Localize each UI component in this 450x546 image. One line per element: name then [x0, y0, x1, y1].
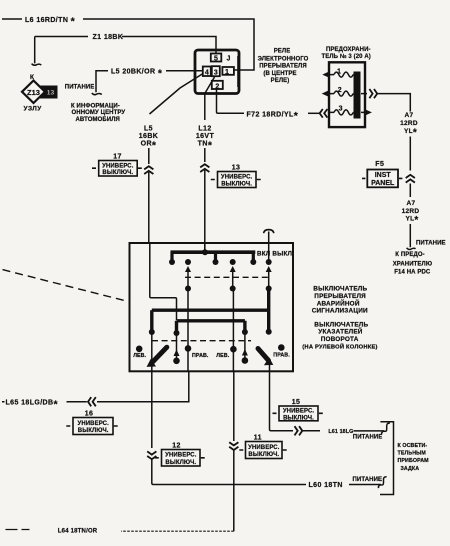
svg-text:ВЫКЛЮЧ.: ВЫКЛЮЧ.	[165, 460, 196, 466]
svg-text:12RD: 12RD	[402, 208, 420, 215]
svg-text:ВЫКЛЮЧАТЕЛЬ: ВЫКЛЮЧАТЕЛЬ	[313, 286, 367, 293]
svg-text:A7: A7	[405, 112, 414, 119]
svg-text:ПОВОРОТА: ПОВОРОТА	[321, 336, 359, 343]
svg-text:К ИНФОРМАЦИ-: К ИНФОРМАЦИ-	[71, 104, 120, 110]
svg-text:СИГНАЛИЗАЦИИ: СИГНАЛИЗАЦИИ	[312, 307, 368, 314]
svg-text:К ПРЕДО-: К ПРЕДО-	[395, 252, 424, 258]
svg-text:13: 13	[47, 90, 55, 97]
svg-text:L5: L5	[144, 126, 153, 133]
svg-text:5: 5	[214, 56, 218, 63]
svg-text:ОННОМУ ЦЕНТРУ: ОННОМУ ЦЕНТРУ	[72, 110, 126, 116]
svg-text:АВТОМОБИЛЯ: АВТОМОБИЛЯ	[76, 117, 120, 123]
svg-text:ПРАВ.: ПРАВ.	[273, 353, 290, 359]
svg-text:ВЫКЛЮЧАТЕЛЬ: ВЫКЛЮЧАТЕЛЬ	[314, 322, 368, 329]
svg-text:К ОСВЕТИ-: К ОСВЕТИ-	[398, 443, 428, 449]
svg-text:ПРЕРЫВАТЕЛЯ: ПРЕРЫВАТЕЛЯ	[314, 293, 366, 300]
svg-text:УНИВЕРС.: УНИВЕРС.	[165, 453, 197, 459]
svg-text:АВАРИЙНОЙ: АВАРИЙНОЙ	[317, 298, 360, 307]
svg-text:(В ЦЕНТРЕ: (В ЦЕНТРЕ	[263, 71, 296, 77]
svg-text:РЕЛЕ: РЕЛЕ	[274, 49, 291, 55]
svg-text:УЗЛУ: УЗЛУ	[24, 106, 43, 113]
svg-text:ЭЛЕКТРОННОГО: ЭЛЕКТРОННОГО	[258, 57, 309, 63]
svg-text:A7: A7	[407, 200, 416, 207]
svg-text:ВЫКЛЮЧ.: ВЫКЛЮЧ.	[221, 181, 252, 187]
svg-text:ТЕЛЬ № 3 (20 А): ТЕЛЬ № 3 (20 А)	[322, 53, 371, 60]
svg-text:ТЕЛЬНЫМ: ТЕЛЬНЫМ	[398, 451, 427, 457]
svg-text:INST: INST	[375, 172, 392, 179]
svg-text:ПРЕРЫВАТЕЛЯ: ПРЕРЫВАТЕЛЯ	[259, 64, 307, 70]
svg-text:ПИТАНИЕ: ПИТАНИЕ	[416, 240, 446, 246]
svg-text:L64 18TN/OR: L64 18TN/OR	[58, 529, 98, 535]
svg-text:F72 18RD/YL*: F72 18RD/YL*	[247, 110, 299, 122]
svg-text:16: 16	[85, 411, 94, 418]
svg-text:L6 16RD/TN *: L6 16RD/TN *	[25, 16, 76, 28]
svg-text:ПИТАНИЕ: ПИТАНИЕ	[353, 435, 383, 441]
svg-text:ВЫКЛЮЧ.: ВЫКЛЮЧ.	[283, 416, 314, 422]
svg-text:ВЫКЛЮЧ.: ВЫКЛЮЧ.	[102, 170, 133, 176]
svg-text:Z1 18BK: Z1 18BK	[93, 34, 124, 41]
svg-text:УКАЗАТЕЛЕЙ: УКАЗАТЕЛЕЙ	[318, 327, 363, 336]
svg-text:К: К	[30, 74, 34, 81]
svg-text:3: 3	[339, 106, 343, 113]
svg-text:12: 12	[172, 443, 181, 450]
svg-text:ВЫКЛЮЧ.: ВЫКЛЮЧ.	[248, 452, 279, 458]
svg-text:11: 11	[254, 435, 262, 442]
svg-text:УНИВЕРС.: УНИВЕРС.	[283, 409, 315, 415]
svg-text:ВЫКЛЮЧ.: ВЫКЛЮЧ.	[78, 428, 109, 434]
svg-text:ЗАДКА: ЗАДКА	[401, 466, 420, 472]
svg-text:2: 2	[338, 87, 342, 94]
svg-text:17: 17	[113, 154, 122, 161]
svg-text:ЛЕВ.: ЛЕВ.	[133, 353, 146, 359]
svg-text:ХРАНИТЕЛЮ: ХРАНИТЕЛЮ	[393, 262, 432, 268]
svg-text:3: 3	[214, 70, 218, 77]
svg-text:F14 НА PDC: F14 НА PDC	[394, 269, 431, 275]
svg-text:15: 15	[292, 399, 301, 406]
svg-text:12RD: 12RD	[400, 120, 418, 127]
svg-text:1: 1	[337, 68, 341, 75]
svg-text:J: J	[227, 56, 231, 63]
svg-text:ПРЕДОХРАНИ-: ПРЕДОХРАНИ-	[326, 47, 371, 53]
svg-text:УНИВЕРС.: УНИВЕРС.	[78, 421, 110, 427]
svg-text:УНИВЕРС.: УНИВЕРС.	[102, 163, 134, 169]
svg-text:1: 1	[225, 69, 229, 76]
svg-text:(НА РУЛЕВОЙ КОЛОНКЕ): (НА РУЛЕВОЙ КОЛОНКЕ)	[302, 342, 377, 350]
svg-text:F5: F5	[375, 161, 384, 168]
svg-text:ПИТАНИЕ: ПИТАНИЕ	[65, 85, 95, 91]
svg-text:ВКЛ ВЫКЛ: ВКЛ ВЫКЛ	[257, 250, 292, 257]
svg-text:YL*: YL*	[405, 215, 418, 226]
svg-text:4: 4	[205, 70, 209, 77]
svg-text:УНИВЕРС.: УНИВЕРС.	[221, 174, 253, 180]
svg-text:L5 20BK/OR *: L5 20BK/OR *	[111, 67, 163, 79]
svg-text:PANEL: PANEL	[371, 180, 395, 187]
svg-text:Z13: Z13	[27, 88, 40, 97]
svg-text:13: 13	[232, 164, 241, 171]
svg-text:ЛЕВ.: ЛЕВ.	[216, 353, 229, 359]
svg-text:ПИТАНИЕ: ПИТАНИЕ	[353, 477, 383, 483]
svg-text:L60 18TN: L60 18TN	[309, 482, 343, 489]
svg-text:ПРИБОРАМ: ПРИБОРАМ	[398, 458, 430, 464]
svg-text:L12: L12	[198, 126, 211, 133]
svg-text:ПРАВ.: ПРАВ.	[192, 353, 209, 359]
svg-text:L65 18LG/DB*: L65 18LG/DB*	[6, 399, 59, 411]
svg-text:РЕЛЕ): РЕЛЕ)	[271, 78, 290, 84]
svg-text:L61 18LG: L61 18LG	[328, 429, 353, 435]
svg-text:УНИВЕРС.: УНИВЕРС.	[248, 445, 280, 451]
